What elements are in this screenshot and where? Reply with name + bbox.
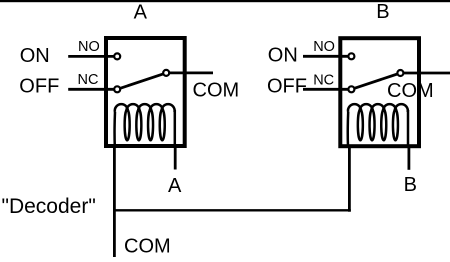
- contact NO (relay B): [348, 53, 354, 59]
- wire NC input (relay A): [68, 88, 114, 91]
- contact NC (relay A): [114, 86, 120, 92]
- svg-text:OFF: OFF: [19, 75, 59, 97]
- wire coil right terminal (relay A): [174, 146, 177, 170]
- wire COM output (relay A): [169, 72, 213, 75]
- wire NC input (relay B): [303, 88, 348, 91]
- svg-text:NO: NO: [313, 39, 335, 55]
- switch arm (relay B): [351, 73, 400, 89]
- wire coil left terminal down to common bus (relay B): [348, 146, 351, 212]
- svg-text:B: B: [376, 1, 389, 23]
- svg-text:A: A: [134, 1, 148, 23]
- svg-text:A: A: [168, 175, 182, 197]
- svg-text:OFF: OFF: [267, 75, 307, 97]
- pole contact (relay B): [397, 70, 403, 76]
- wire NO input (relay B): [303, 55, 348, 58]
- svg-text:COM: COM: [124, 236, 171, 258]
- svg-text:NO: NO: [78, 39, 100, 55]
- svg-text:COM: COM: [193, 79, 240, 101]
- wire NO input (relay A): [68, 55, 114, 58]
- wire coil left terminal down to common bus (relay A): [113, 146, 116, 257]
- wire coil right terminal (relay B): [407, 146, 410, 170]
- svg-text:COM: COM: [387, 80, 434, 102]
- svg-text:"Decoder": "Decoder": [2, 195, 96, 218]
- pole contact (relay A): [163, 70, 169, 76]
- common bus wire to decoder: [113, 209, 351, 211]
- relay A enclosure: [106, 38, 185, 146]
- svg-text:B: B: [404, 174, 417, 196]
- wire COM output (relay B): [404, 72, 450, 75]
- svg-text:ON: ON: [20, 45, 50, 67]
- svg-text:ON: ON: [268, 45, 298, 67]
- coil (relay A): [115, 104, 175, 147]
- contact NO (relay A): [114, 53, 120, 59]
- relay B enclosure: [340, 38, 419, 146]
- svg-text:NC: NC: [78, 72, 99, 88]
- contact NC (relay B): [348, 86, 354, 92]
- svg-text:NC: NC: [313, 72, 334, 88]
- switch arm (relay A): [117, 73, 166, 89]
- coil (relay B): [348, 104, 408, 147]
